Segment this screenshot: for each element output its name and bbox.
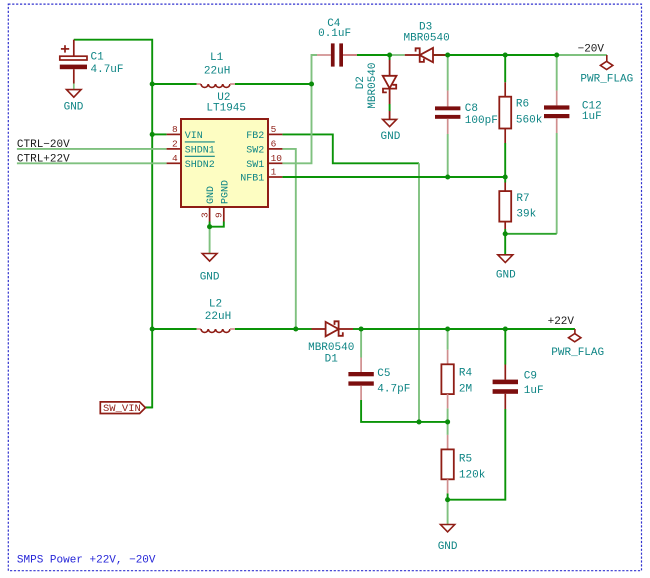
wire top rail R6 to C12 <box>505 54 557 56</box>
node junction FB2 divider tap <box>416 419 421 424</box>
wire R5 gnd stub <box>447 500 449 525</box>
resistor R4 <box>441 350 472 409</box>
svg-text:C1: C1 <box>91 52 105 64</box>
wire C9 top <box>504 329 506 365</box>
wire C12 bottom to R7 gnd node <box>556 133 558 234</box>
wire lower rail C9 to +22V <box>505 328 575 330</box>
wire FB2 route to lower divider <box>282 134 419 163</box>
svg-text:L1: L1 <box>210 52 224 64</box>
svg-text:0.1uF: 0.1uF <box>318 28 351 40</box>
svg-text:39k: 39k <box>516 209 536 221</box>
svg-text:GND: GND <box>438 541 458 553</box>
wire CTRL+22V to SHDN2 <box>17 162 167 164</box>
svg-text:560k: 560k <box>516 115 543 127</box>
capacitor C1 (polarized) <box>60 40 87 84</box>
inductor L1 <box>197 52 236 87</box>
wire SW1 up to VIN rail <box>282 84 311 163</box>
svg-text:10: 10 <box>271 153 283 164</box>
wire lower rail seg1 <box>152 328 196 330</box>
wire C12 top <box>556 55 558 91</box>
svg-text:VIN: VIN <box>185 131 203 142</box>
svg-text:C8: C8 <box>465 103 478 115</box>
capacitor C9 <box>493 365 544 410</box>
node junction SW2 lower rail <box>293 326 298 331</box>
svg-text:2: 2 <box>172 138 178 149</box>
svg-text:GND: GND <box>64 102 84 114</box>
svg-text:D2: D2 <box>355 76 367 89</box>
U2 pin 8 VIN <box>167 124 203 142</box>
resistor R5 <box>441 435 485 494</box>
svg-text:MBR0540: MBR0540 <box>404 32 450 44</box>
wire lower rail R4 to C9 <box>448 328 506 330</box>
U2 pin 4 SHDN2 <box>167 153 215 171</box>
svg-text:100pF: 100pF <box>465 115 498 127</box>
node junction C9 top rail <box>503 326 508 331</box>
node junction R7 gnd <box>503 231 508 236</box>
node junction R5 gnd <box>445 497 450 502</box>
svg-text:4.7uF: 4.7uF <box>91 64 124 76</box>
wire R4 top <box>447 329 449 350</box>
U2 pin 9 PGND <box>214 180 232 222</box>
svg-text:MBR0540: MBR0540 <box>308 342 354 354</box>
svg-text:4: 4 <box>172 153 178 164</box>
ground below D2 <box>381 119 401 143</box>
svg-text:NFB1: NFB1 <box>240 174 264 185</box>
wire lower rail C5 to R4 <box>361 328 448 330</box>
node junction R4/R5 <box>445 419 450 424</box>
svg-text:R4: R4 <box>459 368 473 380</box>
wire R4 bottom <box>447 408 449 422</box>
node junction VIN pin8 tap <box>150 132 155 137</box>
svg-text:L2: L2 <box>209 298 222 310</box>
diode D1 MBR0540 (horizontal, schottky, cathode right) <box>312 321 354 336</box>
diode D2 MBR0540 (vertical, schottky) <box>383 60 397 119</box>
inductor L2 <box>197 298 236 332</box>
svg-text:3: 3 <box>199 212 210 218</box>
wire top rail D3 to C8 <box>433 54 448 56</box>
ground below R7 <box>496 255 516 282</box>
svg-text:SHDN1: SHDN1 <box>185 146 215 157</box>
node junction lower rail SW_VIN <box>150 326 155 331</box>
svg-text:PGND: PGND <box>220 180 231 204</box>
wire C8 top <box>447 55 449 91</box>
wire top rail C8 to R6 <box>448 54 506 56</box>
svg-text:22uH: 22uH <box>205 311 231 323</box>
svg-text:9: 9 <box>214 212 225 218</box>
svg-text:FB2: FB2 <box>246 131 264 142</box>
diode D3 MBR0540 (horizontal, schottky, cathode left) <box>405 48 448 62</box>
wire R6 bottom <box>504 143 506 177</box>
wire D1 cathode to C5 node <box>353 328 361 330</box>
svg-text:120k: 120k <box>459 469 486 481</box>
svg-text:D1: D1 <box>325 354 339 366</box>
wire U2 gnd pins joining <box>210 222 224 227</box>
svg-text:+22V: +22V <box>548 316 575 328</box>
svg-text:CTRL+22V: CTRL+22V <box>17 153 70 165</box>
svg-text:SW2: SW2 <box>246 146 264 157</box>
power flag PWR_FLAG on -20V <box>580 55 633 85</box>
wire FB2 vertical drop x=419 <box>418 163 420 422</box>
power flag PWR_FLAG on +22V <box>551 329 604 359</box>
svg-text:1uF: 1uF <box>524 385 544 397</box>
svg-text:GND: GND <box>200 272 220 284</box>
node junction R6 top <box>503 52 508 57</box>
wire R7 bottom stub <box>504 229 506 234</box>
wire VIN pin8 <box>152 133 166 135</box>
ground below U2 <box>200 254 220 284</box>
node junction R6/R7 divider <box>503 174 508 179</box>
svg-text:C9: C9 <box>524 371 537 383</box>
wire C9 bottom to R5 gnd node <box>448 409 506 500</box>
svg-text:GND: GND <box>381 131 401 143</box>
svg-text:SMPS Power +22V, −20V: SMPS Power +22V, −20V <box>17 555 156 567</box>
wire top rail C12 to -20V <box>557 54 607 56</box>
node junction C8 bottom NFB1 <box>445 174 450 179</box>
U2 pin 2 SHDN1 <box>167 138 215 156</box>
svg-text:GND: GND <box>496 270 516 282</box>
svg-text:22uH: 22uH <box>204 66 230 78</box>
svg-text:C5: C5 <box>377 368 390 380</box>
capacitor C8 <box>435 91 498 134</box>
wire D2 node to D3 anode <box>390 54 405 56</box>
U2 pin 6 SW2 <box>246 138 282 156</box>
node junction R4 top rail <box>445 326 450 331</box>
node junction C12 top <box>554 52 559 57</box>
wire C5 top <box>360 329 362 358</box>
svg-text:SW_VIN: SW_VIN <box>103 403 141 415</box>
svg-text:R5: R5 <box>459 454 472 466</box>
svg-text:−20V: −20V <box>578 44 605 56</box>
wire C5 bottom to divider node <box>361 400 448 422</box>
node junction U2 gnd pins <box>207 224 212 229</box>
node junction VIN rail right <box>309 81 314 86</box>
ground below C1 <box>64 84 84 114</box>
wire R7 gnd stub <box>504 234 506 255</box>
resistor R6 <box>499 82 542 143</box>
wire lower rail seg2 <box>235 328 296 330</box>
U2 pin 5 FB2 <box>246 124 282 142</box>
node junction C8 top <box>445 52 450 57</box>
wire D2 gnd segment <box>389 104 391 111</box>
svg-text:5: 5 <box>271 124 277 135</box>
svg-text:PWR_FLAG: PWR_FLAG <box>551 347 604 359</box>
wire R5 bottom to gnd node <box>447 493 449 499</box>
svg-text:1: 1 <box>271 167 277 178</box>
svg-text:4.7pF: 4.7pF <box>377 383 410 395</box>
svg-text:2M: 2M <box>459 384 472 396</box>
wire D2 anode stub <box>389 55 391 60</box>
svg-text:PWR_FLAG: PWR_FLAG <box>580 73 633 85</box>
svg-text:SW1: SW1 <box>246 160 264 171</box>
wire C1 top to VIN rail <box>74 40 152 84</box>
wire VIN rail right segment <box>235 83 312 85</box>
wire lower rail seg3 <box>296 328 312 330</box>
wire stub up from L1 rail to C4 rail <box>312 55 318 84</box>
wire R5 top <box>447 422 449 435</box>
resistor R7 <box>499 183 536 230</box>
wire VIN rail left segment <box>152 83 196 85</box>
wire CTRL-20V to SHDN1 <box>17 148 167 150</box>
wire C4 to D2 node <box>357 54 390 56</box>
wire R6 top <box>504 55 506 82</box>
svg-text:R7: R7 <box>516 193 529 205</box>
op-amp U1? no: IC U2 LT1945 body <box>181 92 268 207</box>
svg-text:SHDN2: SHDN2 <box>185 160 215 171</box>
capacitor C4 <box>317 18 357 67</box>
node junction D2 anode <box>387 52 392 57</box>
svg-text:R6: R6 <box>516 99 529 111</box>
U2 pin 1 NFB1 <box>240 167 282 185</box>
wire U2 gnd stub <box>209 227 211 254</box>
hierarchical label SW_VIN <box>100 402 145 415</box>
svg-text:GND: GND <box>206 186 217 204</box>
svg-text:LT1945: LT1945 <box>206 103 246 115</box>
wire R7 top stub <box>504 177 506 183</box>
node junction VIN rail left <box>150 81 155 86</box>
wire C8 bottom <box>447 134 449 177</box>
wire NFB1 to R6/R7 divider <box>282 176 505 178</box>
svg-text:1uF: 1uF <box>582 111 602 123</box>
wire SW2 to lower rail <box>282 149 295 329</box>
U2 pin 10 SW1 <box>246 153 282 171</box>
svg-text:MBR0540: MBR0540 <box>367 62 379 108</box>
wire VIN vertical bus x=152 down to SW_VIN <box>145 84 152 407</box>
wire SW_VIN stub <box>145 406 152 408</box>
ground below R5 <box>438 525 458 553</box>
svg-text:6: 6 <box>271 138 277 149</box>
svg-text:8: 8 <box>172 124 178 135</box>
capacitor C5 <box>348 358 410 401</box>
svg-text:CTRL−20V: CTRL−20V <box>17 139 70 151</box>
node junction D1 cathode C5 <box>359 326 364 331</box>
capacitor C12 <box>544 91 602 133</box>
U2 pin 3 GND <box>199 186 217 222</box>
